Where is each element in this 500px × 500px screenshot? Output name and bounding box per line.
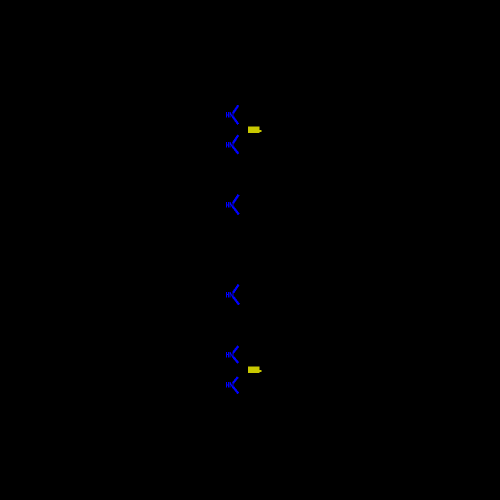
bond C2-C3: [234, 160, 244, 175]
bond N4-C10 black half: [239, 303, 243, 311]
bond N4 up half (to C9): [233, 285, 239, 293]
bond N4 down half (to C10): [233, 297, 239, 305]
bond C11-C12: [234, 325, 244, 340]
bond N5-C13 black half: [238, 363, 243, 371]
atom label N4 "HN": [226, 292, 233, 298]
bond N6-C14 black half: [238, 393, 243, 401]
bond N2 up half (to C1): [233, 135, 238, 143]
wire: skeleton black bonds (carbon halves, invisible on black): [234, 100, 249, 400]
atom label N3 "HN": [226, 202, 233, 208]
bond C8-C9: [234, 265, 244, 280]
bond C0-N1 black half: [238, 100, 243, 105]
bond C4-N3 black half: [239, 190, 243, 195]
bond C10-C11: [234, 310, 244, 325]
atom label N1 "HN": [226, 112, 233, 118]
bond C1=S1 black halves: [243, 128, 248, 131]
bond N3-C5 black half: [239, 213, 243, 221]
bond N5 up half (to C12): [233, 346, 238, 353]
bond C6-C7: [234, 235, 244, 250]
atom label S2 "S" with double-bond glyph mass: [248, 366, 261, 373]
bond N3 down half (to C5): [233, 207, 239, 214]
atom label N5 "HN": [226, 352, 233, 358]
bond C1-N2 black half: [238, 130, 243, 138]
bond C13=S2 black halves: [243, 368, 248, 371]
bond C9-N4 black half: [239, 280, 243, 285]
bond N1 down half (to C1): [233, 117, 238, 124]
bond C12-N5 black half: [238, 340, 243, 346]
bond C3-C4: [234, 175, 244, 190]
bond N6 up half (to C13): [233, 377, 238, 383]
bond C13-N6 black half: [238, 370, 243, 378]
blue half-bonds (nitrogen halves): [233, 105, 239, 393]
bond N1 up half (to CH3): [233, 105, 238, 113]
bond C7-C8: [234, 250, 244, 265]
atom label S1 "S" with double-bond glyph mass: [248, 127, 261, 134]
bond N3 up half (to C4): [233, 195, 239, 203]
bond N2-C2 black half: [238, 153, 243, 161]
bond N5 down half (to C13): [233, 357, 238, 363]
bond N6 down half (to C14): [233, 387, 238, 393]
atom label N6 "HN": [226, 382, 233, 388]
bond C5-C6: [234, 220, 244, 235]
bond N1-C1 black half: [238, 123, 243, 131]
bond N2 down half (to C2): [233, 147, 238, 154]
atom label N2 "HN": [226, 142, 233, 148]
